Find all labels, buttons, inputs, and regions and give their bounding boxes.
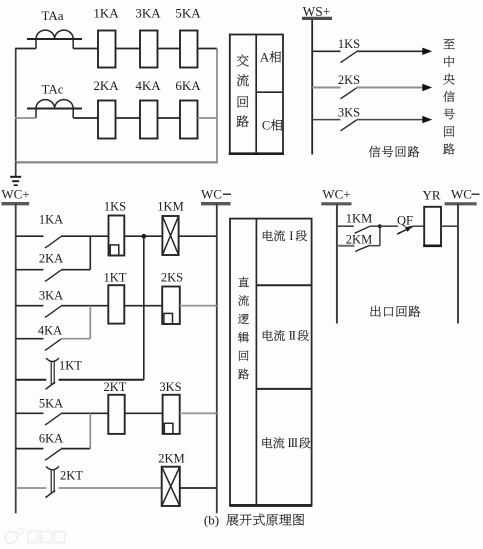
svg-text:2KS: 2KS — [338, 73, 360, 87]
delayed contact 2KT — [46, 466, 84, 497]
svg-text:I: I — [289, 229, 293, 243]
wire 1KA-3KA — [116, 48, 141, 50]
wire 5KA to 2KT — [61, 412, 108, 414]
wire: left vertical of AC loop — [15, 49, 17, 163]
svg-text:1KT: 1KT — [59, 359, 82, 373]
svg-text:1KS: 1KS — [104, 200, 126, 214]
signal contact 2KS — [312, 73, 432, 99]
trip coil YR — [422, 188, 441, 247]
svg-text:WS+: WS+ — [303, 4, 331, 19]
wire YR to WC- — [441, 225, 458, 227]
wire: TAa secondary to 1KA — [15, 48, 36, 50]
svg-text:6KA: 6KA — [175, 78, 201, 93]
wire: junction vertical 1KM/2KM — [379, 226, 381, 246]
wire 4KA-6KA — [158, 117, 181, 119]
signal contact 1KS — [312, 37, 432, 63]
contact 3KA — [16, 289, 63, 318]
delayed contact 1KT — [46, 358, 83, 389]
junction node dot — [142, 234, 147, 239]
signal contact 3KS — [312, 105, 432, 131]
relay coil 5KA — [175, 6, 201, 68]
svg-text:2KA: 2KA — [93, 78, 119, 93]
svg-text:(b): (b) — [204, 513, 219, 528]
svg-text:1KA: 1KA — [39, 213, 63, 227]
svg-text:2KM: 2KM — [346, 232, 372, 246]
bus WC- (right section) — [445, 187, 480, 324]
svg-text:4KA: 4KA — [38, 324, 62, 338]
relay coil 6KA — [175, 78, 201, 139]
current transformer TAc — [27, 82, 82, 119]
wire 6KA to right vertical — [198, 117, 218, 119]
wire 3KS to WC- — [180, 412, 217, 414]
svg-text:2KT: 2KT — [60, 469, 83, 483]
wire 3KA-5KA — [158, 48, 181, 50]
contact 4KA — [16, 324, 62, 351]
contact 1KM — [337, 212, 380, 234]
svg-text:2KM: 2KM — [158, 452, 184, 466]
contact 6KA — [16, 432, 63, 461]
ground symbol — [10, 162, 21, 185]
svg-text:WC+: WC+ — [322, 187, 350, 202]
svg-text:2KA: 2KA — [39, 252, 63, 266]
relay coil 3KA — [135, 6, 161, 68]
caption (b) 展开式原理图 — [204, 513, 304, 528]
wire 5KA to right vertical — [198, 48, 218, 50]
svg-text:C: C — [262, 119, 270, 133]
signal relay coil 1KS — [104, 200, 126, 256]
svg-text:1KS: 1KS — [338, 37, 360, 51]
output relay coil 2KM — [158, 452, 184, 507]
svg-text:3KS: 3KS — [159, 380, 181, 394]
junction dot — [378, 224, 382, 228]
wire: bottom of AC loop — [15, 161, 218, 163]
svg-text:WC: WC — [451, 187, 472, 202]
wire: node column vertical (dot to 1KT contact rung) — [143, 236, 145, 380]
svg-text:TAa: TAa — [41, 8, 63, 23]
svg-text:II: II — [289, 329, 296, 343]
svg-text:6KA: 6KA — [39, 432, 63, 446]
svg-text:QF: QF — [397, 213, 413, 227]
section label 电流II段 — [263, 329, 309, 343]
svg-text:5KA: 5KA — [39, 397, 63, 411]
svg-text:TAc: TAc — [41, 82, 63, 97]
wire 2KT to 3KS — [125, 412, 163, 414]
svg-text:2KS: 2KS — [161, 271, 183, 285]
wire: bus to 1KT contact and to node column — [16, 379, 47, 381]
section label 电流III段 — [262, 436, 310, 450]
wire 1KA to 1KS — [61, 235, 109, 237]
label 信号回路 — [369, 146, 419, 157]
svg-text:YR: YR — [422, 188, 440, 203]
svg-text:WC: WC — [201, 187, 222, 202]
svg-text:WC+: WC+ — [1, 187, 29, 202]
svg-text:1KM: 1KM — [157, 200, 183, 214]
wire 1KS to 1KM — [124, 235, 162, 237]
relay coil 4KA — [135, 78, 161, 139]
svg-text:4KA: 4KA — [135, 78, 161, 93]
bus WC+ (left) — [1, 187, 29, 514]
wire: junction vertical rung6-rung7 — [89, 413, 91, 448]
bus WC+ (right section) — [321, 187, 351, 324]
svg-text:III: III — [288, 436, 298, 450]
box 交流回路 / A相 / C相 — [229, 35, 284, 154]
output relay coil 1KM — [157, 200, 183, 256]
wire: right vertical of AC loop — [216, 49, 218, 163]
signal relay coil 3KS — [159, 380, 181, 434]
node label 至中央信号回路 (vertical) — [443, 39, 454, 155]
contact 5KA — [16, 397, 63, 426]
relay coil 1KA — [93, 6, 119, 68]
wire 6KA to junction — [61, 448, 90, 450]
svg-text:1KM: 1KM — [346, 212, 372, 226]
current transformer TAa — [27, 8, 82, 49]
breaker aux contact QF — [380, 213, 424, 234]
svg-text:3KA: 3KA — [39, 289, 63, 303]
time relay coil 2KT — [104, 380, 127, 434]
svg-text:5KA: 5KA — [175, 6, 201, 21]
svg-text:1KA: 1KA — [93, 6, 119, 21]
wire: junction vertical rung1-rung2 — [89, 236, 91, 270]
wire 2KS to WC- — [180, 305, 217, 307]
svg-text:2KT: 2KT — [104, 380, 127, 394]
wire: junction vertical rung3-rung4 — [89, 306, 91, 339]
contact 2KA — [16, 252, 63, 282]
signal relay coil 2KS — [161, 271, 183, 325]
wire: bus to 2KT contact to 2KM — [16, 487, 47, 489]
wire 4KA to junction — [61, 338, 90, 340]
bus WS+ — [302, 4, 332, 155]
box 直流逻辑回路 with sections — [229, 219, 312, 506]
wire 1KT to 2KS — [124, 305, 162, 307]
wire 2KA-4KA — [116, 117, 141, 119]
svg-text:A: A — [260, 50, 269, 64]
wire 2KA to junction — [61, 269, 90, 271]
label 出口回路 — [370, 306, 420, 317]
section label 电流I段 — [263, 229, 307, 243]
svg-text:3KA: 3KA — [135, 6, 161, 21]
contact 2KM (parallel) — [337, 232, 380, 251]
bus WC- (left section) — [201, 187, 231, 514]
wire 2KM to WC- — [180, 487, 217, 489]
svg-text:1KT: 1KT — [104, 271, 127, 285]
wire 1KM to WC- — [179, 235, 217, 237]
wire 3KA to 1KT — [61, 305, 108, 307]
svg-text:3KS: 3KS — [338, 105, 360, 119]
watermark — [5, 529, 65, 544]
time relay coil 1KT — [104, 271, 127, 324]
contact 1KA — [16, 213, 63, 248]
wire: TAc secondary to 2KA — [15, 117, 36, 119]
relay coil 2KA — [93, 78, 119, 139]
